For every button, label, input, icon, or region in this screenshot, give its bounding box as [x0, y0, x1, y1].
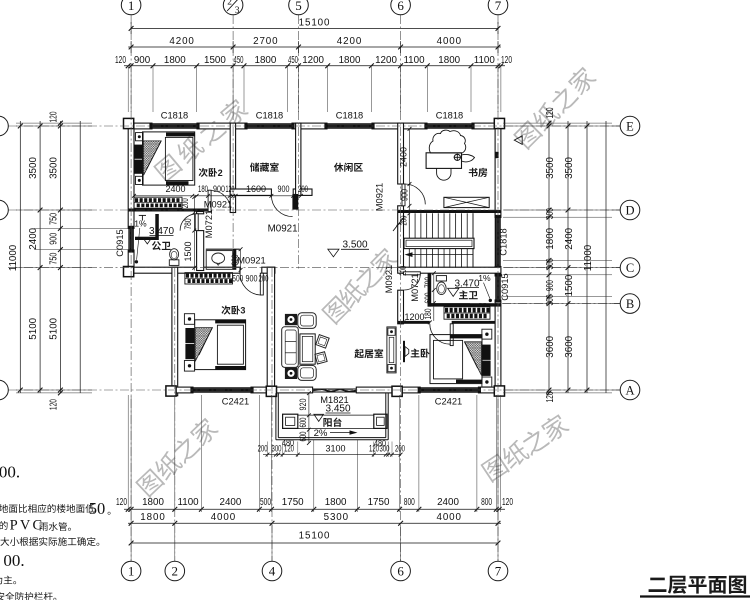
right dim col3 11000	[585, 124, 590, 129]
coffee table	[300, 334, 315, 364]
svg-text:C1818: C1818	[436, 110, 463, 120]
axis circle 4 bottom	[262, 561, 282, 581]
svg-text:200: 200	[258, 444, 268, 454]
svg-text:2: 2	[227, 0, 232, 8]
column	[266, 386, 276, 396]
svg-text:1500: 1500	[183, 241, 193, 261]
svg-text:1600: 1600	[246, 184, 266, 194]
svg-text:C1818: C1818	[161, 110, 188, 120]
svg-text:1200: 1200	[404, 312, 424, 322]
svg-text:1%: 1%	[478, 273, 491, 283]
axis circle D right	[620, 200, 640, 220]
window	[149, 123, 152, 129]
svg-text:2400: 2400	[28, 227, 39, 249]
axis half-circle left edge	[0, 380, 8, 400]
svg-text:D: D	[625, 204, 634, 218]
axis circle 1 top	[121, 0, 141, 15]
window	[424, 123, 427, 129]
interior dim 820 basin (vertical)	[240, 249, 242, 270]
level mark 3.500 hall	[328, 249, 339, 257]
svg-text:120: 120	[226, 184, 235, 194]
top dimension chain row3 sub-dims	[124, 65, 505, 67]
svg-text:C0915: C0915	[115, 229, 125, 256]
sofa set living room	[282, 327, 299, 368]
svg-text:800: 800	[404, 497, 415, 508]
balcony inner rail lines	[298, 414, 374, 416]
axis circle B right	[620, 294, 640, 314]
svg-text:2400: 2400	[165, 184, 185, 194]
svg-text:3500: 3500	[564, 157, 575, 179]
stair rail	[404, 238, 474, 248]
balcony walls	[275, 393, 277, 440]
stairs	[404, 213, 496, 267]
svg-text:5300: 5300	[324, 512, 349, 523]
svg-text:480: 480	[282, 438, 294, 448]
svg-text:600: 600	[298, 432, 308, 442]
grid line vertical	[130, 15, 132, 561]
wardrobe bedroom2	[134, 197, 182, 208]
watermark 图纸之家 bottom-right	[480, 453, 509, 483]
window	[324, 123, 327, 129]
svg-text:900: 900	[400, 189, 410, 201]
svg-text:11000: 11000	[583, 244, 594, 271]
svg-text:820: 820	[230, 255, 240, 266]
wall storage south	[230, 189, 271, 195]
axis circle 5 top	[289, 0, 309, 15]
grid line vertical	[298, 15, 300, 270]
svg-text:1750: 1750	[368, 497, 390, 508]
svg-text:1200: 1200	[302, 55, 324, 66]
wall vestibule west	[398, 290, 404, 324]
column	[392, 386, 402, 396]
svg-text:11000: 11000	[8, 244, 19, 271]
room label 主卧	[411, 348, 430, 357]
grid line horizontal	[8, 125, 620, 127]
column	[166, 386, 176, 396]
interior dim study (vertical 2400/900/200)	[409, 129, 411, 213]
svg-text:900: 900	[213, 184, 225, 194]
svg-text:1500: 1500	[204, 55, 226, 66]
svg-text:5100: 5100	[28, 317, 39, 339]
svg-text:120: 120	[116, 497, 127, 508]
bottom extension lines	[127, 395, 129, 512]
watermark 图纸之家 top-left	[153, 153, 183, 183]
stool 1	[316, 335, 329, 348]
svg-text:3: 3	[240, 306, 245, 316]
room label 主卫	[459, 290, 478, 299]
svg-text:2: 2	[218, 168, 223, 178]
wall living west axis4	[267, 267, 274, 396]
grid line vertical	[174, 268, 176, 561]
grid line horizontal	[8, 209, 620, 211]
wardrobe master bedroom	[444, 307, 490, 319]
interior dim 1200 master door	[404, 321, 430, 323]
svg-text:1500: 1500	[564, 274, 575, 296]
column	[124, 118, 134, 128]
balcony post left	[283, 414, 298, 428]
svg-text:1800: 1800	[140, 512, 165, 523]
wall pub-bath east	[197, 212, 204, 214]
outer wall south	[172, 387, 193, 393]
svg-text:1800: 1800	[438, 55, 460, 66]
svg-text:120: 120	[49, 399, 60, 410]
grid line vertical	[271, 268, 273, 561]
room label 次卧3	[221, 306, 245, 316]
drawing title 二层平面图	[649, 576, 747, 594]
axis circle 2/3 top	[223, 0, 243, 15]
svg-text:7: 7	[495, 0, 502, 13]
column	[494, 386, 504, 396]
outer wall west upper	[128, 123, 134, 228]
svg-text:50: 50	[89, 499, 106, 518]
svg-text:1100: 1100	[178, 497, 200, 508]
TV master bedroom	[403, 341, 405, 362]
svg-text:300: 300	[545, 258, 556, 269]
svg-text:00.: 00.	[3, 551, 24, 570]
svg-text:B: B	[626, 297, 634, 311]
right dimension columns	[548, 121, 550, 393]
svg-text:4200: 4200	[337, 36, 362, 47]
bottom dimension chain row3 15100	[131, 542, 498, 544]
wall storage west axis3	[230, 123, 235, 212]
svg-text:1800: 1800	[545, 227, 556, 249]
wardrobe bedroom3	[185, 273, 233, 284]
side table bottom	[285, 368, 297, 379]
grid line horizontal	[8, 389, 620, 391]
column	[124, 267, 134, 277]
stair break line	[393, 217, 405, 232]
svg-text:480: 480	[374, 439, 386, 449]
svg-text:900: 900	[49, 232, 60, 244]
svg-text:M0921: M0921	[384, 265, 394, 293]
svg-text:00.: 00.	[0, 463, 20, 482]
grid line vertical	[232, 15, 234, 270]
svg-text:120: 120	[545, 391, 556, 402]
axis circle 1 bottom	[121, 561, 141, 581]
room label 次卧2	[199, 168, 223, 178]
svg-text:450: 450	[234, 55, 244, 66]
room label 公卫	[152, 241, 171, 250]
plant study	[429, 130, 465, 153]
window	[495, 273, 501, 276]
axis circle 6 top	[391, 0, 411, 15]
left dimension columns	[19, 121, 21, 393]
svg-text:2400: 2400	[437, 497, 459, 508]
svg-text:1: 1	[128, 0, 135, 13]
svg-text:2400: 2400	[220, 497, 242, 508]
door M0921 study/stair	[402, 184, 405, 206]
svg-text:M0921: M0921	[374, 183, 384, 211]
svg-text:2700: 2700	[253, 36, 278, 47]
interior dim master-bath (vertical 700/600)	[433, 273, 435, 303]
svg-text:120: 120	[49, 111, 60, 122]
svg-text:2: 2	[172, 564, 179, 579]
axis circle 7 top	[488, 0, 508, 15]
svg-text:120: 120	[501, 55, 512, 66]
watermark 图纸之家 center	[321, 295, 351, 325]
right dim col2 3500/2400/1500/3600	[566, 124, 571, 129]
axis half-circle left edge	[0, 116, 8, 136]
left dim col3 120/3500/750/900/750/5100/120	[58, 121, 63, 126]
interior dim line storage south wall	[236, 195, 301, 197]
svg-text:M0921: M0921	[204, 200, 232, 210]
svg-text:120: 120	[115, 55, 126, 66]
left dim col 11000	[18, 124, 23, 129]
svg-text:C1818: C1818	[499, 228, 509, 255]
svg-text:200: 200	[395, 444, 405, 454]
bed bedroom3	[184, 314, 194, 325]
svg-text:120: 120	[545, 107, 556, 118]
grid line horizontal	[8, 267, 620, 269]
window	[128, 226, 134, 229]
door M0921 bedroom2	[208, 190, 211, 211]
svg-text:M0721: M0721	[204, 210, 214, 238]
cabinet study with X	[444, 197, 489, 207]
svg-text:900: 900	[278, 184, 290, 194]
svg-text:3: 3	[235, 6, 240, 16]
svg-text:M0921: M0921	[237, 255, 265, 265]
outer wall north	[128, 123, 152, 129]
armchair top	[298, 313, 316, 329]
axis circle 6 bottom	[391, 561, 411, 581]
svg-text:1750: 1750	[282, 497, 304, 508]
watermark 图纸之家 bottom-left	[135, 468, 165, 498]
axis circle 2 bottom	[165, 561, 185, 581]
window	[495, 215, 501, 218]
door master bedroom	[450, 324, 453, 346]
svg-text:1800: 1800	[325, 497, 347, 508]
svg-text:1800: 1800	[339, 55, 361, 66]
svg-text:1: 1	[128, 564, 135, 579]
svg-text:750: 750	[49, 252, 60, 264]
svg-text:2400: 2400	[398, 147, 408, 167]
door M0921 bedroom3	[260, 273, 263, 295]
svg-text:1100: 1100	[403, 55, 425, 66]
section marker triangle right of plan	[514, 136, 522, 145]
balcony dim chain	[263, 454, 401, 456]
outer wall east	[495, 123, 501, 217]
svg-text:3100: 3100	[325, 444, 345, 454]
basin corridor	[206, 251, 233, 270]
wall study south (thin)	[398, 210, 501, 213]
svg-text:2%: 2%	[314, 428, 328, 439]
svg-text:120: 120	[502, 497, 513, 508]
svg-text:PVC: PVC	[10, 518, 45, 534]
svg-text:1200: 1200	[375, 55, 397, 66]
level mark 3.450 balcony	[314, 414, 324, 421]
svg-text:1800: 1800	[255, 55, 277, 66]
axis circle A right	[620, 380, 640, 400]
room label 休闲区	[334, 163, 363, 172]
floor drain pub-bath	[139, 214, 146, 216]
wall corridor south	[128, 267, 240, 273]
svg-text:920: 920	[298, 399, 308, 411]
top dimension chain row1 15100	[131, 27, 498, 29]
grid line vertical	[400, 15, 402, 561]
axis circle E right	[620, 116, 640, 136]
svg-text:200: 200	[398, 216, 408, 226]
svg-text:450: 450	[288, 55, 298, 66]
svg-text:15100: 15100	[299, 531, 331, 542]
wall stair south	[398, 267, 501, 273]
svg-text:300: 300	[545, 208, 556, 219]
svg-text:C1818: C1818	[336, 110, 363, 120]
wall master-bed north (thin)	[398, 321, 430, 324]
axis circle C right	[620, 258, 640, 278]
window	[244, 123, 247, 129]
grid line vertical	[497, 15, 499, 561]
svg-text:200: 200	[298, 184, 308, 194]
svg-text:C1818: C1818	[256, 110, 283, 120]
svg-text:780: 780	[183, 219, 193, 230]
interior dim 180 master closet (vertical)	[433, 307, 435, 321]
svg-text:800: 800	[481, 497, 492, 508]
svg-text:E: E	[626, 120, 634, 134]
wall master-bath west (thin)	[428, 273, 432, 306]
side table top	[285, 314, 297, 325]
svg-text:200: 200	[259, 274, 269, 284]
svg-text:7: 7	[495, 564, 502, 579]
svg-text:A: A	[625, 384, 634, 398]
svg-text:4000: 4000	[437, 36, 462, 47]
svg-text:C2421: C2421	[222, 397, 249, 407]
bed bedroom2	[136, 133, 144, 141]
wall study west / stair west	[398, 123, 404, 184]
left dim col2 3500/2400/5100	[38, 124, 43, 129]
svg-text:3500: 3500	[545, 157, 556, 179]
door M0721 master-bath	[404, 272, 421, 275]
stair direction arrow	[412, 254, 474, 256]
toilet master-bath	[436, 276, 446, 281]
outer wall west lower	[172, 267, 178, 396]
top dimension chain row2 4200/2700/4200/4000	[128, 46, 501, 48]
axis circle 7 bottom	[488, 561, 508, 581]
svg-text:3500: 3500	[28, 157, 39, 179]
basin alcove corridor walls	[206, 248, 240, 250]
column	[494, 118, 504, 128]
svg-text:700: 700	[423, 277, 433, 288]
armchair bottom	[298, 365, 316, 380]
wall storage east axis5	[296, 123, 301, 195]
right dim col1 sub-chain	[547, 121, 552, 126]
svg-text:1800: 1800	[142, 497, 164, 508]
stair landing edge	[494, 213, 496, 267]
level mark 3.470 pub-bath	[143, 238, 152, 244]
axis half-circle left edge	[0, 200, 8, 220]
svg-text:600: 600	[423, 293, 433, 304]
svg-text:1%: 1%	[134, 219, 147, 229]
bottom dimension chain row2 1800/4000/5300/4000	[128, 522, 501, 524]
computer on desk	[454, 154, 460, 160]
svg-text:1800: 1800	[164, 55, 186, 66]
interior dim line bedroom2 south wall	[134, 195, 233, 197]
shower partition pub-bath	[135, 237, 156, 240]
bed master bedroom	[482, 329, 492, 339]
stool 2	[315, 352, 327, 364]
watermark 图纸之家 top-right	[513, 120, 543, 150]
wall D bedrooms south (thin)	[128, 209, 208, 212]
svg-text:300: 300	[545, 294, 556, 305]
svg-text:2400: 2400	[564, 227, 575, 249]
toilet pub-bath	[169, 260, 179, 266]
svg-text:5: 5	[295, 0, 302, 13]
door M1821 balcony threshold	[313, 388, 357, 390]
svg-text:M0721: M0721	[410, 273, 420, 301]
door M0921 storage	[292, 194, 298, 210]
svg-text:3600: 3600	[545, 335, 556, 357]
svg-text:4000: 4000	[436, 512, 461, 523]
svg-text:900: 900	[545, 280, 556, 291]
svg-text:15100: 15100	[299, 18, 331, 29]
svg-text:500: 500	[260, 497, 271, 508]
svg-text:180: 180	[198, 184, 208, 194]
svg-text:750: 750	[49, 213, 60, 225]
window	[190, 387, 193, 393]
window	[418, 387, 421, 393]
svg-text:3500: 3500	[49, 157, 60, 179]
room label 储藏室	[250, 162, 279, 171]
door M0721 pub-bath	[195, 214, 198, 231]
svg-text:4: 4	[269, 564, 276, 579]
svg-text:C: C	[626, 261, 634, 275]
desk study	[426, 153, 461, 169]
svg-text:3600: 3600	[564, 335, 575, 357]
wall master-bath south axis B (thin)	[428, 303, 501, 307]
level mark 3.470 master-bath	[448, 288, 459, 296]
svg-text:4200: 4200	[169, 36, 194, 47]
svg-text:200: 200	[398, 266, 408, 276]
svg-text:M0921: M0921	[268, 223, 298, 234]
svg-text:900: 900	[246, 274, 258, 284]
interior dim line pub-bath (vertical)	[193, 197, 195, 271]
svg-text:300: 300	[272, 444, 282, 454]
svg-text:6: 6	[397, 564, 404, 579]
bottom dimension chain row1 sub-dims	[124, 508, 505, 510]
svg-text:600: 600	[298, 418, 308, 428]
vent window study east wall	[495, 152, 499, 158]
svg-text:C0915: C0915	[500, 273, 510, 300]
room label 阳台	[323, 418, 341, 427]
room label 起居室	[354, 349, 383, 358]
svg-text:200: 200	[180, 198, 190, 208]
svg-text:500: 500	[232, 274, 243, 284]
balcony post right	[374, 414, 387, 428]
room label 书房	[469, 168, 487, 177]
svg-text:1100: 1100	[474, 55, 496, 66]
chair study	[437, 168, 451, 180]
svg-text:6: 6	[397, 0, 404, 13]
svg-text:900: 900	[134, 55, 151, 66]
grid line horizontal	[470, 303, 620, 305]
balcony vertical dim 920/600/600	[308, 393, 310, 443]
svg-text:4000: 4000	[211, 512, 236, 523]
svg-text:C2421: C2421	[435, 397, 462, 407]
TV cabinet living room	[387, 327, 396, 373]
svg-text:5100: 5100	[49, 317, 60, 339]
